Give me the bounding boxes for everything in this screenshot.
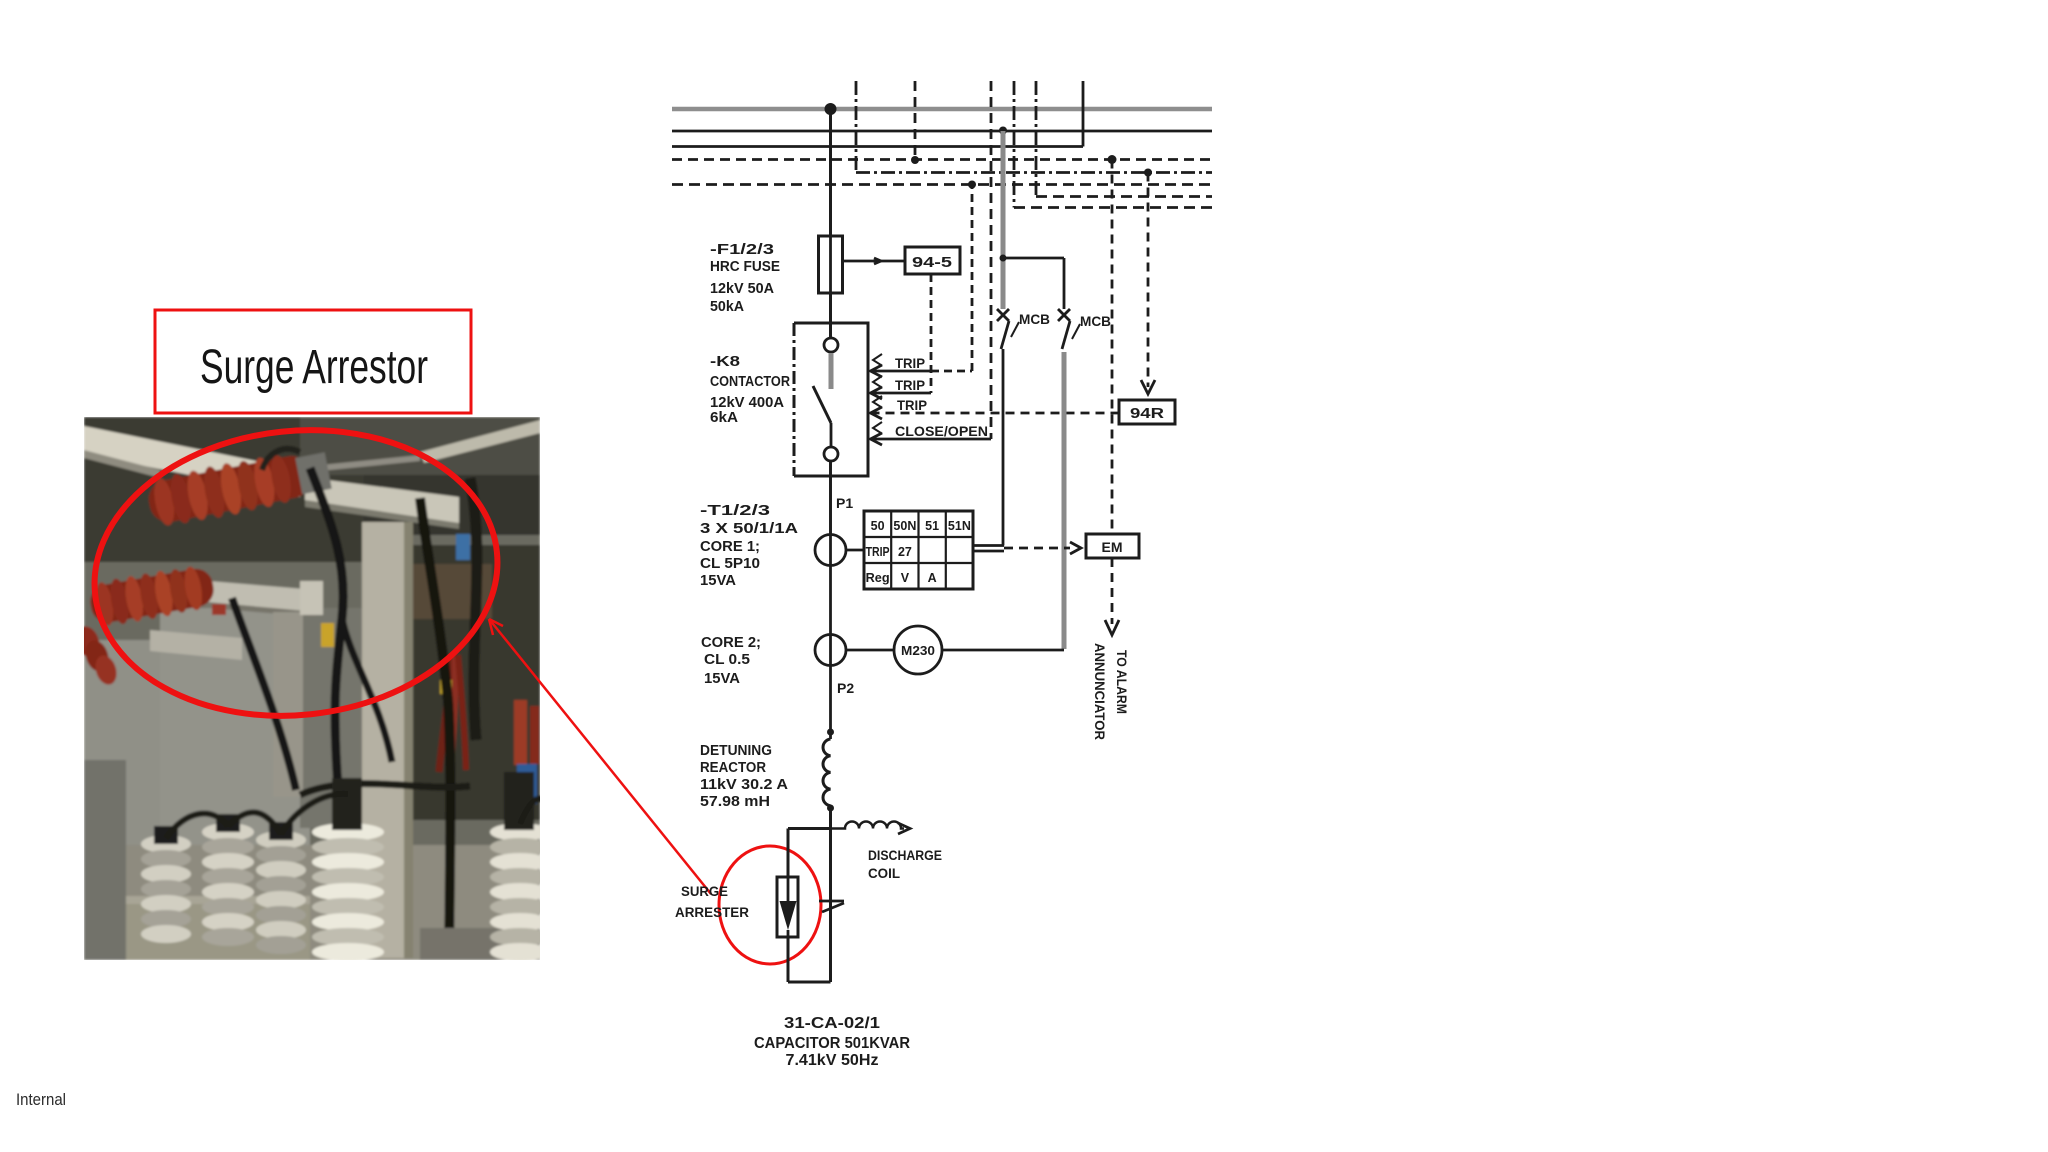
wire: dashed alarm line x=1112 through EM box [1105, 160, 1119, 636]
wire: arrester return to feeder bottom [788, 981, 831, 984]
wire: dashed control riser x=991 (CLOSE/OPEN) [990, 81, 993, 439]
svg-text:CORE 2;: CORE 2; [701, 635, 761, 651]
wire: feeder drop from bus to fuse [829, 109, 832, 236]
detuning reactor L1 [823, 729, 834, 983]
CT T1/2/3 core 1 (protection) [815, 461, 864, 739]
svg-text:51N: 51N [948, 519, 971, 533]
svg-text:11kV 30.2 A: 11kV 30.2 A [700, 777, 789, 793]
svg-text:TRIP: TRIP [895, 355, 925, 371]
svg-text:SURGE: SURGE [681, 884, 728, 899]
svg-text:57.98 mH: 57.98 mH [700, 794, 770, 810]
svg-text:CL 0.5: CL 0.5 [704, 652, 750, 668]
label: fuse designation [710, 242, 780, 315]
svg-text:V: V [901, 571, 910, 585]
svg-text:6kA: 6kA [710, 410, 739, 426]
svg-text:50: 50 [871, 519, 885, 533]
svg-text:27: 27 [898, 545, 912, 559]
capacitor unbalance tick on feeder [819, 901, 844, 912]
wire: solid riser x=1083 [1082, 81, 1085, 147]
svg-text:DETUNING: DETUNING [700, 743, 772, 759]
svg-text:Reg: Reg [866, 571, 890, 585]
node: junction x=915 on dashed bus [911, 156, 919, 164]
svg-text:A: A [928, 571, 937, 585]
svg-text:94-5: 94-5 [912, 254, 952, 271]
annotation: red leader line photo to schematic [489, 619, 711, 894]
svg-text:ANNUNCIATOR: ANNUNCIATOR [1092, 643, 1107, 740]
label: detuning reactor [700, 743, 789, 810]
svg-text:-K8: -K8 [710, 354, 740, 370]
label: contactor designation [710, 354, 790, 426]
meter M230 [846, 626, 1064, 674]
discharge coil with arrow [831, 822, 911, 835]
svg-text:MCB: MCB [1019, 311, 1050, 327]
meter box EM [1086, 534, 1139, 558]
svg-text:50kA: 50kA [710, 299, 745, 315]
annotation: red ellipse highlight on photo [80, 411, 511, 736]
svg-text:TO ALARM: TO ALARM [1114, 650, 1129, 714]
label: CORE 2 [701, 635, 761, 687]
footer label: Internal [16, 1091, 66, 1109]
svg-text:CORE 1;: CORE 1; [700, 539, 760, 555]
svg-text:7.41kV 50Hz: 7.41kV 50Hz [786, 1052, 879, 1069]
svg-text:M230: M230 [901, 643, 935, 658]
svg-text:Surge Arrestor: Surge Arrestor [200, 341, 428, 394]
svg-text:15VA: 15VA [700, 573, 737, 589]
svg-text:12kV 400A: 12kV 400A [710, 395, 785, 411]
busbar: bus line 2 (solid) [672, 130, 1212, 133]
svg-text:-F1/2/3: -F1/2/3 [710, 242, 774, 258]
title box: Surge Arrestor [155, 310, 471, 413]
svg-text:CLOSE/OPEN: CLOSE/OPEN [895, 423, 988, 439]
wire: top stub dash-dot x=1014 [1013, 81, 1016, 208]
svg-text:50N: 50N [893, 519, 916, 533]
svg-text:REACTOR: REACTOR [700, 760, 766, 776]
relay box 94R [1119, 400, 1175, 424]
svg-text:51: 51 [925, 519, 939, 533]
protection relay table 50/50N/51/51N [864, 511, 973, 589]
contactor coil arrow TRIP 2 [871, 376, 932, 399]
wire: relay table output to EM (double line then dashed arrow) [973, 542, 1081, 554]
svg-text:COIL: COIL [868, 866, 900, 881]
busbar: control bus 5 (dashed) [1014, 206, 1212, 209]
label: TO ALARM ANNUNCIATOR (rotated) [1092, 643, 1129, 740]
wire: top stub dash-dot at x=856 [855, 81, 858, 173]
node: feeder tap on gray bus [825, 103, 837, 115]
contactor coil arrow TRIP 1 [871, 354, 932, 377]
photo: surge arrestor installation [73, 417, 550, 961]
svg-text:ARRESTER: ARRESTER [675, 905, 749, 920]
node: junction x=1112 on dashed bus [1108, 155, 1117, 164]
surge arrester SA1 [777, 877, 798, 982]
svg-text:-T1/2/3: -T1/2/3 [700, 503, 770, 519]
busbar: control bus 1 (dashed) [672, 158, 1212, 161]
wire: fuse to relay 94-5 with arrow [843, 258, 905, 264]
label: surge arrester [675, 884, 749, 920]
svg-text:P2: P2 [837, 680, 854, 696]
svg-text:P1: P1 [836, 495, 853, 511]
svg-text:15VA: 15VA [704, 671, 741, 687]
wire: top stub dashed at x=915 [914, 81, 917, 160]
busbar: control bus 3 (dashed) [672, 183, 1212, 186]
label: P1 [836, 495, 853, 511]
node: metering tap x=1003 on bus line 2 [999, 127, 1007, 135]
contactor coil arrow TRIP 3 (to 94R) [871, 396, 1120, 419]
wire: dashed 94-5 trip drop x=931 [930, 274, 933, 393]
svg-text:94R: 94R [1130, 405, 1164, 422]
svg-text:EM: EM [1102, 539, 1123, 555]
MCB 2 (voltage circuit, gray highlighted below) [1058, 309, 1111, 649]
MCB 1 (metering supply, gray highlighted) [997, 131, 1050, 546]
svg-text:CONTACTOR: CONTACTOR [710, 374, 790, 390]
contactor K8 (12kV 400A) [794, 293, 868, 535]
svg-text:Internal: Internal [16, 1091, 66, 1109]
busbar: control bus 4 (dashed) [1036, 195, 1212, 198]
svg-text:12kV 50A: 12kV 50A [710, 281, 775, 297]
wire: top stub dash-dot x=1036 [1035, 81, 1038, 197]
svg-text:CL 5P10: CL 5P10 [700, 556, 760, 572]
label: P2 [837, 680, 854, 696]
CT core 2 (metering) [815, 635, 846, 666]
wire: branch to MCB2 [1000, 255, 1065, 310]
node: junction x=1148 on dash-dot bus [1144, 169, 1152, 177]
wire: dashed drop to 94R with arrow [1141, 173, 1155, 395]
wire: dashed link TRIP1 to riser x=972 [931, 185, 972, 372]
svg-text:TRIP: TRIP [895, 377, 925, 393]
relay box 94-5 [905, 247, 960, 274]
label: CT designation [700, 503, 799, 589]
label: capacitor bank 31-CA-02/1 [754, 1015, 910, 1069]
fuse F1/2/3 (HRC fuse) [819, 236, 843, 293]
wire: branch to surge arrester [788, 829, 831, 878]
node: junction x=972 on dashed bus [968, 181, 976, 189]
svg-text:MCB: MCB [1080, 313, 1111, 329]
svg-text:CAPACITOR 501KVAR: CAPACITOR 501KVAR [754, 1035, 910, 1052]
busbar: bus line 3 (solid, ends at riser) [672, 145, 1083, 148]
svg-text:TRIP: TRIP [866, 545, 890, 559]
busbar: control bus 2 (dash-dot) [856, 171, 1212, 174]
busbar: incoming bus (gray highlighted phase) [672, 107, 1212, 112]
svg-text:31-CA-02/1: 31-CA-02/1 [784, 1015, 880, 1032]
annotation: red circle around surge arrester symbol [719, 846, 821, 964]
svg-text:3 X 50/1/1A: 3 X 50/1/1A [700, 521, 799, 537]
label: discharge coil [868, 848, 942, 881]
svg-text:DISCHARGE: DISCHARGE [868, 848, 942, 863]
contactor coil arrow CLOSE/OPEN [871, 422, 992, 445]
svg-text:HRC FUSE: HRC FUSE [710, 259, 780, 275]
svg-text:TRIP: TRIP [897, 397, 927, 413]
